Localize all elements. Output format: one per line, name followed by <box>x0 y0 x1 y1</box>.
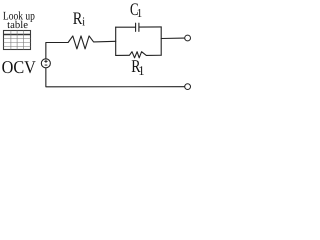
lookup table icon (grid with header row) <box>4 31 31 50</box>
wire: top branch left segment <box>116 26 136 28</box>
wire: parallel-branch right vertical (node B) <box>160 27 162 55</box>
plus polarity mark <box>44 60 47 63</box>
capacitor C1 plate right <box>138 23 140 31</box>
output terminal top <box>185 35 191 41</box>
svg-text:1: 1 <box>138 63 144 78</box>
voltage source OCV circle <box>41 59 50 68</box>
minus polarity mark <box>45 64 48 67</box>
resistor R1 zigzag on bottom branch <box>116 52 162 58</box>
capacitor C1 plate left <box>135 23 137 31</box>
wire: right rail to positive terminal <box>161 37 184 39</box>
wire from source bottom + bottom return rail <box>46 68 185 86</box>
svg-text:table: table <box>7 20 28 31</box>
svg-text:1: 1 <box>137 6 143 20</box>
wire: parallel-branch left vertical (node A) <box>115 27 117 55</box>
wire: top branch right segment <box>139 26 161 28</box>
output terminal bottom <box>185 84 191 90</box>
wire from source top + top rail + resistor Ri zigzag <box>46 36 116 58</box>
svg-text:OCV: OCV <box>2 57 36 77</box>
svg-text:i: i <box>82 14 86 28</box>
